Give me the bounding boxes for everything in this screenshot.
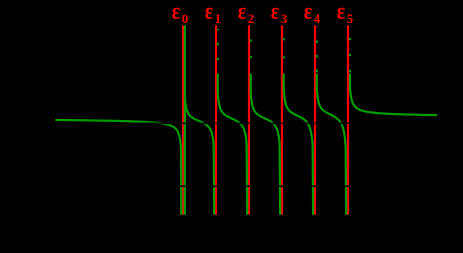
svg-text:ε: ε — [205, 0, 213, 24]
svg-text:ε: ε — [304, 0, 312, 24]
wire: sampling dots above pole3 right hug — [283, 29, 285, 72]
svg-text:5: 5 — [347, 12, 353, 26]
svg-text:ε: ε — [172, 0, 180, 24]
wire: sampling dots above pole5 right hug — [349, 29, 351, 72]
node epsilon_3: red vertical asymptote line — [281, 25, 283, 215]
wire: sampling dots above pole4 right hug — [316, 29, 318, 72]
svg-text:3: 3 — [281, 12, 287, 26]
wire: sampling dots above pole2 right hug — [250, 29, 252, 72]
wire: pole0 right-side vertical crossing segment — [184, 25, 186, 215]
wire: black horizontal axis line (upper, crosses poles and curve) — [50, 123, 445, 125]
wire: gap e1-e2 S-curve — [218, 74, 247, 215]
wire: right tail from pole5 — [350, 74, 437, 116]
wire: gap e2-e3 S-curve — [251, 74, 280, 215]
node epsilon_0: red vertical asymptote line — [182, 25, 184, 215]
svg-text:1: 1 — [215, 12, 221, 26]
node epsilon_1: red vertical asymptote line — [215, 25, 217, 215]
wire: gap e4-e5 S-curve — [317, 74, 346, 215]
node epsilon_4: red vertical asymptote line — [314, 25, 316, 215]
svg-text:4: 4 — [314, 12, 321, 26]
svg-text:ε: ε — [337, 0, 345, 24]
svg-text:0: 0 — [182, 12, 188, 26]
svg-text:2: 2 — [248, 12, 254, 26]
wire: black horizontal axis line (lower, crosses poles and hugs) — [50, 185, 445, 187]
wire: gap e0-e1 S-curve — [185, 98, 214, 215]
wire: gap e3-e4 S-curve — [284, 74, 313, 215]
node epsilon_5: red vertical asymptote line — [347, 25, 349, 215]
wire: left tail into pole0 — [55, 120, 181, 215]
svg-text:ε: ε — [238, 0, 246, 24]
node epsilon_2: red vertical asymptote line — [248, 25, 250, 215]
wire: sampling dots above pole1 right hug — [217, 29, 219, 72]
svg-text:ε: ε — [271, 0, 279, 24]
